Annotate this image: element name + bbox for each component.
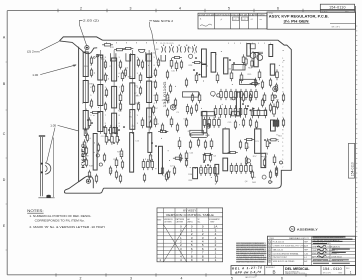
svg-text:QTY: QTY — [305, 238, 310, 240]
svg-text:1: 1 — [282, 58, 283, 60]
resistor — [84, 127, 87, 138]
resistor — [230, 70, 233, 81]
resistor — [258, 69, 261, 80]
resistor right edge — [273, 104, 276, 118]
svg-text:KV ASSY: KV ASSY — [183, 209, 196, 213]
pad — [274, 95, 277, 98]
svg-text:SCALE 2/1: SCALE 2/1 — [331, 246, 340, 249]
svg-text:4: 4 — [282, 155, 283, 157]
resistor cluster unit — [105, 134, 108, 145]
transistor — [189, 54, 193, 58]
power resistor col — [83, 111, 88, 130]
version table grid — [157, 208, 223, 262]
transistor — [269, 181, 272, 184]
transistor — [207, 124, 211, 128]
svg-text:2: 2 — [269, 246, 270, 248]
resistor cluster unit — [214, 165, 217, 176]
left border small ticks — [6, 62, 8, 250]
resistor — [240, 72, 243, 83]
resistor horizontal — [123, 47, 133, 49]
dark component right edge — [273, 121, 279, 126]
resistor small — [251, 170, 253, 180]
capacitor/resistor vertical — [211, 53, 216, 73]
via dots — [82, 50, 284, 184]
resistor small — [143, 173, 145, 183]
resistor small — [197, 138, 199, 148]
cap — [245, 57, 247, 66]
resistor — [83, 139, 86, 150]
large component — [148, 133, 152, 153]
svg-text:8: 8 — [116, 43, 117, 45]
svg-text:1.00: 1.00 — [32, 73, 38, 77]
right margin vertical drawing number box — [348, 143, 354, 178]
top mounting bracket tab — [59, 37, 102, 41]
svg-text:154-0110: 154-0110 — [329, 6, 346, 10]
signature scribbles — [317, 245, 326, 257]
resistor small — [90, 68, 92, 78]
resistor — [251, 107, 254, 118]
IC package — [190, 130, 204, 135]
relay frame — [146, 52, 152, 61]
svg-text:7: 7 — [282, 167, 283, 169]
pad circle — [93, 57, 95, 59]
power resistor col — [98, 85, 103, 106]
parts rows tiny text — [268, 241, 309, 263]
capacitor/resistor vertical — [202, 111, 207, 132]
resistor small — [180, 60, 182, 70]
svg-text:FINISH —: FINISH — — [331, 253, 339, 255]
resistor small — [249, 93, 251, 103]
resistor small — [242, 93, 244, 103]
pad circle — [100, 55, 103, 58]
resistor — [276, 69, 279, 80]
svg-text:0: 0 — [282, 138, 283, 140]
resistor bank A unit — [220, 89, 223, 100]
resistor bank B unit — [244, 105, 247, 117]
small resistor — [186, 104, 188, 114]
version control table — [157, 208, 223, 262]
resistor — [257, 107, 260, 118]
resistor small — [86, 133, 88, 143]
resistor — [245, 140, 248, 151]
svg-text:8: 8 — [282, 87, 283, 89]
power resistor col — [130, 83, 135, 104]
resistor bank A unit — [245, 89, 248, 100]
cap can right top 2 — [257, 55, 263, 61]
column side digits — [90, 57, 155, 125]
svg-text:8: 8 — [282, 129, 283, 131]
resistor small — [203, 153, 205, 163]
resistor small — [275, 83, 277, 93]
resistor small — [165, 172, 167, 182]
svg-text:5: 5 — [240, 43, 241, 45]
resistor small — [154, 80, 156, 90]
resistor small — [269, 103, 271, 113]
large component — [223, 129, 229, 153]
svg-text:8: 8 — [146, 43, 147, 45]
resistor small — [166, 70, 168, 80]
resistor bank B unit — [214, 105, 217, 117]
svg-text:1-17: 1-17 — [242, 19, 245, 21]
resistor cluster unit — [204, 165, 207, 176]
resistor bank B unit — [234, 105, 237, 117]
resistor — [166, 92, 169, 103]
pin detail base blob — [46, 195, 50, 198]
resistor cluster unit — [208, 117, 211, 128]
resistor — [185, 150, 188, 161]
resistor small — [173, 166, 175, 176]
svg-text:CORRESPONDS TO P/L ITEM No.: CORRESPONDS TO P/L ITEM No. — [35, 218, 85, 222]
resistor small — [104, 73, 106, 83]
svg-text:2: 2 — [282, 62, 283, 64]
capacitor row top — [162, 45, 197, 53]
svg-text:P.C.B 4-67-10: P.C.B 4-67-10 — [273, 242, 284, 244]
svg-text:JAN 27 1970: JAN 27 1970 — [245, 276, 255, 279]
resistor small — [209, 153, 211, 163]
resistor small — [97, 143, 99, 153]
resistor small — [269, 170, 271, 180]
svg-text:2: 2 — [282, 146, 283, 148]
blobs near bank B right — [246, 108, 255, 111]
resistor bank B unit — [229, 105, 232, 117]
resistor cluster unit — [249, 163, 252, 174]
svg-text:154-0110: 154-0110 — [350, 162, 354, 176]
resistor horizontal — [203, 153, 213, 155]
cap — [251, 59, 253, 68]
svg-text:8: 8 — [126, 43, 127, 45]
release stamp handwriting — [232, 266, 262, 275]
svg-text:CONNECTOR GUIDE 860-3 PLT CTN(: CONNECTOR GUIDE 860-3 PLT CTN(2) — [273, 246, 306, 248]
transistor — [247, 159, 251, 163]
cap can right top 1 — [250, 53, 256, 59]
resistor small — [176, 123, 178, 133]
svg-text:3: 3 — [282, 108, 283, 110]
version table header cells — [157, 218, 220, 224]
svg-text:8: 8 — [136, 43, 137, 45]
right border fine ruler ticks — [356, 26, 358, 237]
large component — [255, 129, 261, 153]
svg-text:4: 4 — [282, 71, 283, 73]
power resistor col — [112, 86, 117, 108]
resistor small — [242, 118, 244, 128]
assembly circle stamp — [290, 226, 295, 231]
large component — [159, 146, 163, 173]
svg-text:5: 5 — [246, 43, 247, 45]
relay frame — [126, 53, 131, 61]
svg-text:LUG SOLDERLESS TERMINAL: LUG SOLDERLESS TERMINAL — [273, 252, 299, 255]
resistor bank A unit — [240, 89, 243, 100]
revision note paragraph (illegible) — [236, 242, 266, 263]
small rects right top — [250, 44, 255, 49]
svg-text:2: 2 — [80, 6, 82, 10]
bottom ruler ticks — [56, 273, 306, 276]
resistor small — [137, 58, 139, 68]
resistor small — [161, 166, 163, 176]
resistor small — [167, 170, 169, 180]
svg-text:SH 1 OF 1: SH 1 OF 1 — [332, 27, 341, 29]
resistor — [178, 138, 181, 149]
revision row scribble — [200, 24, 212, 26]
resistor cluster unit — [110, 125, 113, 136]
svg-text:1-17: 1-17 — [233, 19, 236, 21]
bottom bracket hole — [86, 179, 90, 183]
resistor bank B unit — [239, 105, 242, 117]
svg-text:2.03 (2): 2.03 (2) — [83, 18, 99, 22]
resistor small — [152, 105, 154, 115]
resistor — [170, 116, 173, 127]
top bracket hole — [85, 46, 89, 50]
svg-text:CODE 81512: CODE 81512 — [331, 256, 342, 258]
resistor small — [261, 98, 263, 108]
resistor cluster unit — [213, 117, 216, 128]
resistor — [139, 72, 142, 83]
right column dense text — [312, 237, 343, 262]
title block dark heading masses — [313, 236, 353, 263]
svg-text:4-1: 4-1 — [304, 257, 307, 259]
large component — [93, 134, 97, 171]
resistor small — [119, 102, 121, 112]
resistor R2 — [114, 48, 125, 50]
divider under title right cell — [330, 22, 356, 24]
resistor small — [161, 123, 163, 133]
resistor small — [269, 78, 271, 88]
svg-text:SH 1 OF 1: SH 1 OF 1 — [323, 273, 332, 275]
power resistor col — [130, 110, 135, 130]
resistor — [210, 138, 213, 149]
title block top: ASSY KVP REGULATOR — [267, 12, 356, 29]
resistor — [121, 70, 124, 81]
svg-text:154 - 0110: 154 - 0110 — [323, 267, 342, 271]
svg-text:3: 3 — [282, 150, 283, 152]
resistor — [83, 151, 86, 162]
IC package — [183, 92, 199, 97]
resistor — [154, 116, 157, 127]
capacitor/resistor vertical — [224, 58, 228, 74]
resistor small — [249, 118, 251, 128]
resistor — [155, 92, 158, 103]
transistor — [96, 154, 99, 157]
PCB left edge — [78, 47, 80, 182]
svg-text:APP dw 2-4-70: APP dw 2-4-70 — [234, 270, 261, 275]
trimmer — [139, 50, 145, 53]
svg-text:8: 8 — [156, 43, 157, 45]
resistor horizontal — [158, 130, 168, 132]
resistor small — [234, 120, 236, 130]
capacitor/resistor vertical — [202, 49, 207, 64]
resistor cluster unit — [203, 117, 206, 128]
large component — [223, 158, 228, 171]
cap right edge — [270, 64, 274, 75]
svg-text:B: B — [273, 269, 276, 274]
resistor small — [92, 84, 94, 94]
resistor small — [104, 60, 106, 70]
power resistor col — [83, 81, 88, 103]
resistor — [119, 92, 122, 103]
resistor — [175, 60, 178, 71]
resistor cluster unit — [200, 165, 203, 176]
resistor small — [109, 166, 111, 176]
IC right mid — [253, 111, 267, 116]
IC package — [240, 79, 256, 84]
resistor small — [195, 103, 197, 113]
svg-text:6: 6 — [277, 6, 279, 10]
svg-text:✓: ✓ — [220, 18, 223, 22]
resistor small — [124, 68, 126, 78]
svg-text:4: 4 — [179, 6, 181, 10]
transistor — [207, 124, 210, 127]
svg-text:5: 5 — [282, 75, 283, 77]
resistor unit — [142, 159, 145, 170]
svg-text:SCALE -: SCALE - — [322, 10, 329, 13]
svg-text:6: 6 — [282, 79, 283, 81]
bottom strip boxes — [231, 266, 356, 275]
resistor cluster unit — [235, 163, 238, 174]
svg-text:LETTER: LETTER — [164, 221, 172, 223]
svg-text:VERSION CONTROL TABLE: VERSION CONTROL TABLE — [166, 213, 214, 217]
svg-text:No.: No. — [198, 221, 201, 223]
svg-text:5: 5 — [264, 43, 265, 45]
PCB board outline — [103, 40, 292, 188]
resistor cluster unit — [218, 117, 221, 128]
resistor small — [276, 118, 278, 128]
resistor — [264, 107, 267, 118]
resistor bank A unit — [255, 89, 258, 100]
resistor bank B unit — [224, 105, 227, 117]
resistor small — [282, 93, 284, 103]
resistor small — [149, 153, 151, 163]
svg-text:5: 5 — [228, 6, 230, 10]
transistor — [217, 94, 220, 97]
svg-text:6: 6 — [269, 261, 270, 263]
resistor small — [149, 120, 151, 130]
resistor small — [282, 118, 284, 128]
resistor small — [169, 84, 171, 94]
resistor cluster unit — [240, 163, 243, 174]
svg-text:ITEM: ITEM — [269, 238, 274, 240]
svg-text:1: 1 — [269, 242, 270, 244]
resistor small — [137, 102, 139, 112]
resistor small — [179, 153, 181, 163]
reference designator labels — [84, 47, 283, 184]
resistor small — [90, 99, 92, 109]
title block outer — [268, 236, 356, 265]
svg-text:1. NUMERICAL PORTION OF REF.: 1. NUMERICAL PORTION OF REF. DESIG. — [29, 214, 91, 218]
version table X cross — [163, 225, 186, 262]
resistor small — [191, 93, 193, 103]
horizontal relay mid top — [232, 65, 245, 71]
large component — [215, 164, 219, 174]
power resistor col — [112, 58, 117, 81]
power resistor col — [130, 55, 135, 79]
resistor cluster unit — [209, 165, 212, 176]
svg-text:4: 4 — [282, 113, 283, 115]
resistor horizontal — [244, 138, 254, 140]
resistor small — [88, 170, 90, 180]
resistor small — [105, 88, 107, 98]
resistor small — [104, 102, 106, 112]
resistor small — [141, 60, 143, 70]
svg-text:5-60: 5-60 — [304, 253, 308, 255]
resistor horizontal — [192, 61, 202, 63]
svg-text:7: 7 — [282, 83, 283, 85]
resistor column leads — [86, 50, 149, 134]
svg-text:4-1: 4-1 — [251, 19, 254, 21]
resistor unit — [147, 159, 150, 170]
svg-text:2. MARK 'W' No. & VERSION LET: 2. MARK 'W' No. & VERSION LETTER .10 HIG… — [29, 225, 104, 229]
svg-text:3: 3 — [130, 6, 132, 10]
resistor small — [185, 158, 187, 168]
resistor — [115, 157, 118, 168]
resistor horizontal — [173, 157, 183, 159]
capacitor/resistor vertical — [247, 44, 251, 57]
resistor small — [174, 98, 176, 108]
resistor small — [276, 100, 278, 110]
relay frame — [110, 53, 116, 61]
power resistor col — [147, 54, 152, 78]
resistor — [141, 117, 144, 128]
pad circle — [96, 54, 99, 57]
resistor small — [121, 84, 123, 94]
resistor small — [189, 140, 191, 150]
svg-text:2: 2 — [80, 276, 82, 280]
resistor — [273, 154, 276, 165]
resistor bank A unit — [250, 89, 253, 100]
svg-text:INDUSTRIES INC.: INDUSTRIES INC. — [285, 271, 300, 273]
resistor cluster unit — [111, 134, 114, 145]
resistor bank A unit — [235, 89, 238, 100]
power resistor col — [112, 113, 117, 133]
svg-text:6: 6 — [281, 276, 283, 280]
resistor cluster unit — [115, 125, 118, 136]
pin detail solder dots — [41, 163, 43, 165]
resistor small — [255, 120, 257, 130]
svg-text:3: 3 — [282, 66, 283, 68]
capacitor/resistor vertical — [202, 65, 207, 78]
concentric transistor right — [273, 86, 278, 91]
board edge pin numbers right side — [282, 58, 283, 169]
svg-text:5: 5 — [231, 276, 233, 280]
resistor small — [157, 58, 159, 68]
strip under number box — [320, 10, 354, 13]
resistor R1 — [102, 44, 113, 46]
resistor small — [119, 174, 121, 184]
resistor horizontal — [90, 111, 100, 113]
svg-text:5: 5 — [228, 43, 229, 45]
svg-text:PIN TEST POINT: PIN TEST POINT — [273, 257, 288, 259]
relay frame — [161, 55, 166, 61]
svg-text:LETTER: LETTER — [176, 221, 184, 223]
svg-text:WIRE BUS 22 GA TINNED: WIRE BUS 22 GA TINNED — [273, 260, 295, 263]
svg-text:1: 1 — [282, 142, 283, 144]
resistor cluster unit — [104, 125, 107, 136]
svg-text:ASSY, KVP REGULATOR, P.C.B.: ASSY, KVP REGULATOR, P.C.B. — [269, 15, 329, 19]
resistor horizontal — [228, 151, 238, 153]
small resistor — [190, 105, 192, 115]
top edge tiny numbers — [106, 43, 271, 45]
bottom mounting bracket foot — [79, 176, 94, 188]
resistor small — [263, 158, 265, 168]
transistor — [211, 91, 216, 96]
resistor small — [139, 86, 141, 96]
svg-text:TAB 2-24-10: TAB 2-24-10 — [273, 248, 283, 251]
version table data — [159, 225, 217, 263]
IC package — [201, 112, 215, 116]
resistor small — [103, 153, 105, 163]
IC package — [231, 112, 240, 116]
revision history table — [198, 13, 267, 29]
resistor unit — [151, 159, 154, 170]
resistor small — [245, 156, 247, 166]
